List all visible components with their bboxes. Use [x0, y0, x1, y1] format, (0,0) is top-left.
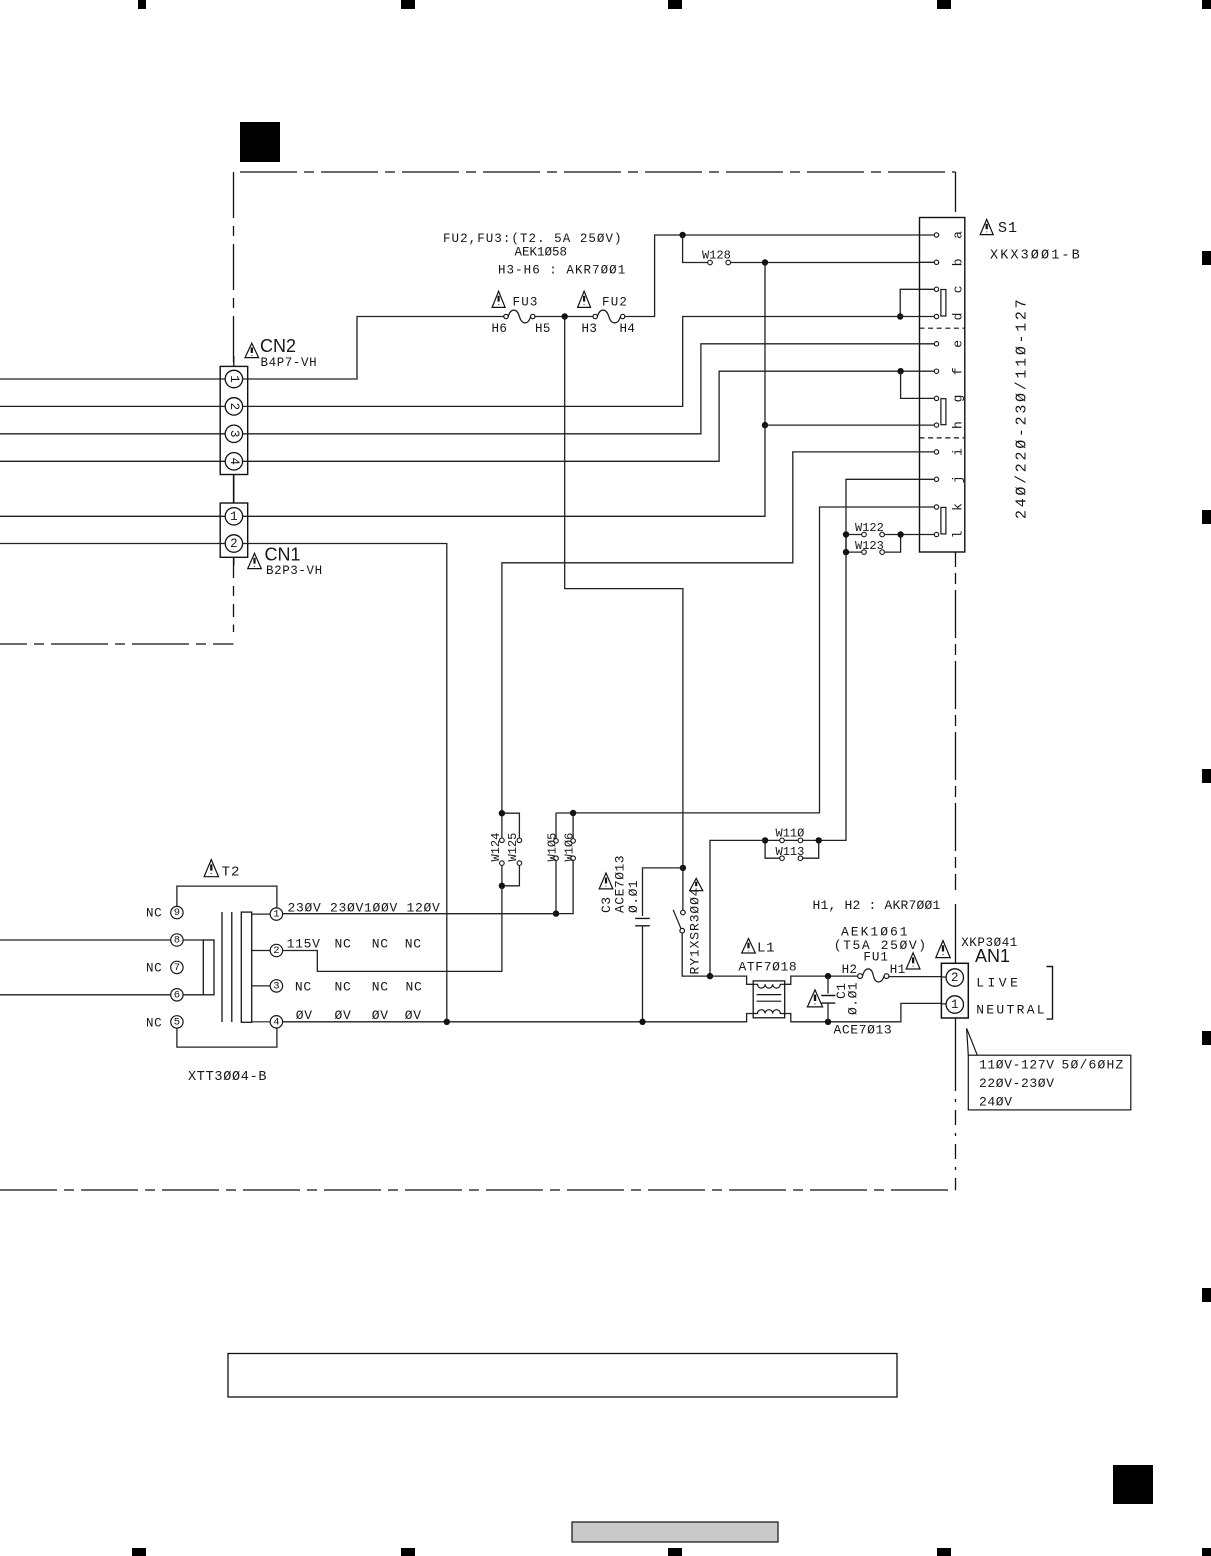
- T2 pin 7: [171, 961, 183, 974]
- S1 contact bar g-h: [941, 399, 946, 425]
- junction dot f-g: [897, 368, 903, 374]
- svg-text:ØV: ØV: [405, 1008, 422, 1023]
- warning triangle above AN1: [936, 941, 950, 958]
- S1 pin k: [934, 503, 965, 511]
- svg-text:24Ø/22Ø-23Ø/11Ø-127: 24Ø/22Ø-23Ø/11Ø-127: [1014, 297, 1031, 519]
- capacitor C3: [635, 918, 650, 1021]
- wire W124 bottom to 115V tap: [283, 886, 502, 972]
- gray footer bar: [572, 1522, 778, 1542]
- svg-text:11ØV-127V: 11ØV-127V: [979, 1058, 1055, 1073]
- wire node to L1 top left: [710, 976, 753, 984]
- wire page-left to CN2 pin 4: [0, 460, 220, 462]
- jumper W110: [765, 838, 819, 843]
- svg-text:k: k: [951, 503, 966, 511]
- border right edge upper: [955, 172, 957, 890]
- svg-text:NC: NC: [335, 980, 352, 995]
- svg-text:FU2: FU2: [602, 296, 628, 310]
- warning triangle at FU2: [578, 291, 591, 307]
- svg-text:2: 2: [951, 971, 959, 985]
- junction dot C1 bottom: [825, 1019, 831, 1025]
- junction dot L1 input node: [707, 973, 713, 979]
- svg-text:24ØV: 24ØV: [979, 1095, 1013, 1110]
- svg-text:NC: NC: [405, 937, 422, 952]
- wire CN1 pin 2 riser to 0V line: [242, 544, 446, 1022]
- svg-text:115V: 115V: [287, 937, 321, 952]
- callout box voltages: [968, 1055, 1131, 1110]
- svg-text:B2P3-VH: B2P3-VH: [266, 564, 323, 578]
- svg-text:L1: L1: [757, 941, 775, 957]
- warning triangle at C1: [807, 990, 822, 1007]
- S1 pin g: [934, 394, 965, 402]
- svg-text:d: d: [951, 313, 966, 321]
- svg-text:h: h: [951, 421, 966, 429]
- T2 primary winding bar: [203, 940, 214, 995]
- svg-text:W11Ø: W11Ø: [776, 827, 805, 841]
- svg-text:NEUTRAL: NEUTRAL: [976, 1003, 1047, 1018]
- CN1 pin wire stubs: [220, 516, 225, 543]
- svg-text:ØV: ØV: [372, 1008, 389, 1023]
- wire page-left to CN1 pin 2: [0, 543, 220, 545]
- T2 pin 8: [171, 934, 183, 947]
- warning triangle at C3: [599, 873, 613, 889]
- svg-text:W113: W113: [776, 845, 805, 859]
- svg-text:W122: W122: [855, 521, 884, 535]
- svg-text:NC: NC: [146, 907, 162, 921]
- CN1 pin 1: [225, 508, 242, 525]
- svg-text:NC: NC: [372, 980, 389, 995]
- wire junction a down to W128: [683, 235, 708, 263]
- section marker square top-left: [240, 122, 280, 162]
- svg-text:H1: H1: [890, 963, 906, 977]
- border left edge: [233, 172, 235, 617]
- wire page-left to CN2 pin 3: [0, 433, 220, 435]
- connector CN1 body: [220, 503, 248, 566]
- svg-text:ØV: ØV: [335, 1008, 352, 1023]
- jumper W122: [846, 532, 901, 537]
- svg-text:i: i: [951, 448, 966, 456]
- T2 pin 4: [252, 1016, 283, 1029]
- L1 top winding: [753, 984, 785, 988]
- svg-text:CN1: CN1: [265, 545, 301, 565]
- svg-text:AN1: AN1: [975, 946, 1010, 966]
- svg-text:LIVE: LIVE: [976, 976, 1021, 991]
- S1 pin h: [934, 421, 965, 429]
- connector CN2 body: [220, 356, 248, 503]
- S1 pin l: [934, 530, 965, 538]
- svg-text:H1, H2 : AKR7ØØ1: H1, H2 : AKR7ØØ1: [813, 898, 941, 913]
- svg-text:3: 3: [227, 430, 241, 438]
- svg-text:NC: NC: [295, 980, 312, 995]
- wire page-left to CN2 pin 2: [0, 405, 220, 407]
- svg-text:H2: H2: [842, 963, 858, 977]
- wire S1 pin j riser to W110: [821, 479, 934, 840]
- border right edge lower: [955, 1076, 957, 1190]
- border right edge at AN1: [955, 904, 957, 1076]
- S1 section separator h-i: [920, 437, 965, 439]
- S1 pin c: [934, 285, 965, 293]
- wire T2 pin 1 to W105 bottom: [283, 913, 556, 915]
- svg-text:4: 4: [227, 458, 241, 466]
- svg-text:2: 2: [230, 537, 238, 551]
- junction dot C3 on 0V: [639, 1019, 645, 1025]
- capacitor C1: [821, 976, 835, 1022]
- wire pin b riser down to CN1 pin 1: [242, 263, 765, 517]
- S1 contact bar c-d: [941, 290, 946, 317]
- section marker square bottom-right: [1113, 1465, 1153, 1504]
- junction dots W105 W106: [553, 810, 577, 917]
- svg-text:a: a: [951, 231, 966, 239]
- wire CN2 pin 1 to fuse row: [242, 317, 503, 380]
- junction dots W124 W125: [499, 810, 505, 889]
- T2 pin 3: [252, 980, 283, 993]
- L1 core lines: [757, 995, 782, 1002]
- svg-text:W128: W128: [702, 249, 731, 263]
- border left edge lower dash: [233, 625, 235, 633]
- svg-text:9: 9: [174, 907, 180, 919]
- svg-text:NC: NC: [146, 962, 162, 976]
- svg-text:H6: H6: [492, 322, 508, 336]
- wire S1 pin l to W122: [901, 534, 935, 536]
- AC inlet AN1 body: [941, 963, 968, 1018]
- S1 pin f: [934, 367, 965, 375]
- jumper W106: [556, 813, 575, 914]
- svg-text:2: 2: [227, 403, 241, 411]
- jumper W125: [502, 813, 522, 886]
- svg-text:ACE7Ø13: ACE7Ø13: [834, 1023, 893, 1038]
- wire page-left to T2 pin 8: [0, 939, 203, 941]
- AN1 pin wire stubs: [941, 977, 946, 1004]
- AN1 pin 1: [946, 996, 963, 1013]
- junction dot above RY1: [680, 865, 686, 871]
- svg-text:f: f: [951, 367, 966, 375]
- svg-text:H3-H6 : AKR7ØØ1: H3-H6 : AKR7ØØ1: [498, 264, 626, 278]
- warning triangle right of H1: [906, 953, 920, 969]
- wire junction to S1 pin h: [765, 424, 934, 426]
- wire CN2 pin 4 to S1 pin f: [242, 371, 934, 461]
- warning triangle at RY1: [690, 878, 703, 890]
- fuse FU3: [504, 310, 535, 323]
- T2 pin 6: [171, 989, 183, 1002]
- svg-text:1: 1: [951, 998, 959, 1012]
- svg-text:H3: H3: [582, 322, 598, 336]
- S1 contact bar k-l: [941, 507, 946, 534]
- svg-text:23ØV 23ØV1ØØV 12ØV: 23ØV 23ØV1ØØV 12ØV: [288, 901, 441, 916]
- T2 pin 5: [171, 1016, 183, 1029]
- svg-text:RY1XSR3ØØ4: RY1XSR3ØØ4: [688, 887, 703, 974]
- wire junction to C3 top: [643, 868, 683, 916]
- svg-text:ØV: ØV: [296, 1008, 313, 1023]
- svg-text:NC: NC: [146, 1017, 162, 1031]
- wire page-left to CN2 pin 1: [0, 378, 220, 380]
- svg-text:W125: W125: [506, 833, 520, 862]
- fuse FU1: [858, 969, 889, 982]
- junction dots W122 W123: [843, 531, 904, 555]
- warning triangle at L1 label: [742, 939, 756, 954]
- svg-text:1: 1: [230, 510, 238, 524]
- warning triangle at FU3: [492, 291, 505, 307]
- wire S1 pin c jog to pin d wire: [900, 289, 934, 316]
- svg-text:4: 4: [273, 1016, 279, 1028]
- svg-text:l: l: [951, 530, 966, 538]
- svg-text:5: 5: [174, 1017, 180, 1029]
- svg-text:W124: W124: [489, 833, 503, 862]
- svg-text:j: j: [951, 475, 966, 483]
- S1 pin j: [934, 475, 965, 483]
- CN2 pin 1: [225, 370, 242, 387]
- switch S1 body: [920, 218, 965, 553]
- L1 bottom winding: [753, 1010, 785, 1014]
- svg-text:CN2: CN2: [260, 336, 296, 356]
- transformer T2 bottom bracket pin5 to pin4: [177, 1028, 277, 1047]
- svg-text:1: 1: [227, 375, 241, 383]
- wire fuse junction down and over to RY1: [565, 317, 683, 866]
- T2 pin 2: [252, 944, 283, 957]
- callout leader: [967, 1028, 978, 1055]
- wire L1 top right to FU1 node: [785, 976, 858, 984]
- svg-text:Ø.Ø1: Ø.Ø1: [846, 982, 861, 1015]
- border bottom edge: [0, 1189, 956, 1191]
- svg-text:XKX3ØØ1-B: XKX3ØØ1-B: [990, 249, 1082, 264]
- CN2 pin 2: [225, 398, 242, 415]
- jumper W105: [554, 813, 559, 914]
- fuse FU2: [593, 310, 625, 323]
- junction dot on pin a wire: [679, 232, 685, 238]
- wire W110 left down to L1 node: [710, 840, 765, 976]
- empty title box bottom: [228, 1354, 897, 1398]
- svg-text:5Ø/6ØHZ: 5Ø/6ØHZ: [1062, 1058, 1125, 1073]
- S1 pin a b wire stubs: [920, 235, 935, 262]
- wire L1 bottom right to 0V: [785, 1003, 947, 1021]
- svg-text:XTT3ØØ4-B: XTT3ØØ4-B: [188, 1070, 267, 1085]
- wire junction f down to S1 pin g: [901, 371, 935, 398]
- S1 pin i: [934, 448, 965, 456]
- warning triangle at CN1 label: [248, 553, 262, 568]
- transformer T2 top bracket pin9 to pin1: [177, 886, 277, 907]
- svg-text:Ø.Ø1: Ø.Ø1: [626, 880, 641, 913]
- junction dot fuse row: [562, 313, 568, 319]
- svg-text:NC: NC: [406, 980, 423, 995]
- junction dot on riser at pin h: [762, 422, 768, 428]
- svg-text:FU3: FU3: [513, 296, 539, 310]
- relay contact RY1: [673, 868, 708, 976]
- wire CN2 pin 3 to S1 pin e: [242, 344, 934, 434]
- warning triangle at S1 label: [980, 219, 993, 234]
- node 0V line T2 pin4 to L1: [283, 1014, 754, 1022]
- wire S1 pin k to W106 top: [575, 507, 934, 813]
- jumper W113: [765, 840, 819, 860]
- svg-text:b: b: [951, 258, 966, 266]
- svg-text:g: g: [951, 394, 966, 402]
- svg-text:22ØV-23ØV: 22ØV-23ØV: [979, 1076, 1055, 1091]
- svg-text:B4P7-VH: B4P7-VH: [261, 356, 318, 370]
- junction dot C1 top: [825, 973, 831, 979]
- junction dots W110: [762, 837, 822, 843]
- junction dot on pin b wire: [762, 259, 768, 265]
- border exit line left at y 644: [0, 643, 234, 645]
- bracket right of LIVE NEUTRAL: [1047, 967, 1053, 1020]
- svg-text:7: 7: [174, 962, 180, 974]
- jumper W123: [846, 535, 901, 555]
- wire page-left to CN1 pin 1: [0, 515, 220, 517]
- T2 core lines: [222, 912, 232, 1022]
- svg-text:W1Ø6: W1Ø6: [563, 833, 577, 862]
- AN1 pin 2: [946, 969, 963, 986]
- wire CN2 pin 2 to S1 pin d: [242, 317, 934, 407]
- svg-text:T2: T2: [222, 864, 241, 880]
- T2 secondary winding bar: [241, 912, 251, 1022]
- junction dot c-d: [897, 313, 903, 319]
- T2 pin 1: [252, 908, 283, 921]
- svg-text:e: e: [951, 340, 966, 348]
- wire S1 pin i to W124 jumpers riser: [502, 452, 934, 811]
- svg-text:S1: S1: [998, 220, 1018, 237]
- CN2 pin 3: [225, 425, 242, 442]
- svg-text:2: 2: [273, 945, 279, 957]
- warning triangle at CN2 label: [245, 343, 259, 357]
- svg-text:1: 1: [273, 909, 279, 921]
- S1 section separator d-e: [920, 327, 965, 329]
- svg-text:8: 8: [174, 935, 180, 947]
- jumper W128: [708, 260, 731, 265]
- svg-text:3: 3: [273, 981, 279, 993]
- warning triangle at T2 label: [204, 860, 218, 877]
- S1 pin e: [934, 340, 965, 348]
- svg-text:AEK1Ø58: AEK1Ø58: [515, 246, 568, 260]
- wire page-left to T2 pin 6: [0, 994, 203, 996]
- CN2 pin wire stubs: [220, 379, 225, 461]
- svg-text:FU2,FU3:(T2. 5A 25ØV): FU2,FU3:(T2. 5A 25ØV): [443, 232, 623, 246]
- CN2 pin 4: [225, 453, 242, 470]
- svg-text:ATF7Ø18: ATF7Ø18: [739, 960, 798, 975]
- svg-text:(T5A 25ØV): (T5A 25ØV): [834, 938, 928, 953]
- S1 pin a: [934, 231, 965, 239]
- wire FU1 to AN1 pin 2: [889, 976, 946, 978]
- wire FU3 to FU2 with junction: [535, 316, 593, 318]
- T2 pin 9: [171, 906, 183, 919]
- S1 pin d: [934, 313, 965, 321]
- svg-text:W123: W123: [855, 539, 884, 553]
- svg-text:NC: NC: [372, 937, 389, 952]
- svg-text:NC: NC: [335, 937, 352, 952]
- S1 pin b: [934, 258, 965, 266]
- CN1 pin 2: [225, 535, 242, 552]
- line filter L1 body: [753, 981, 785, 1018]
- svg-text:6: 6: [174, 989, 180, 1001]
- jumper W124: [500, 813, 505, 886]
- power supply assy dash-dot border top edge: [240, 171, 956, 173]
- junction dot CN1-2 riser on 0V: [444, 1019, 450, 1025]
- wire FU2 to S1 pin a riser: [625, 235, 934, 317]
- svg-text:H5: H5: [535, 322, 551, 336]
- svg-text:c: c: [951, 285, 966, 293]
- svg-text:H4: H4: [620, 322, 636, 336]
- wire W128 to S1 pin b: [731, 262, 935, 264]
- svg-text:W1Ø5: W1Ø5: [546, 833, 560, 862]
